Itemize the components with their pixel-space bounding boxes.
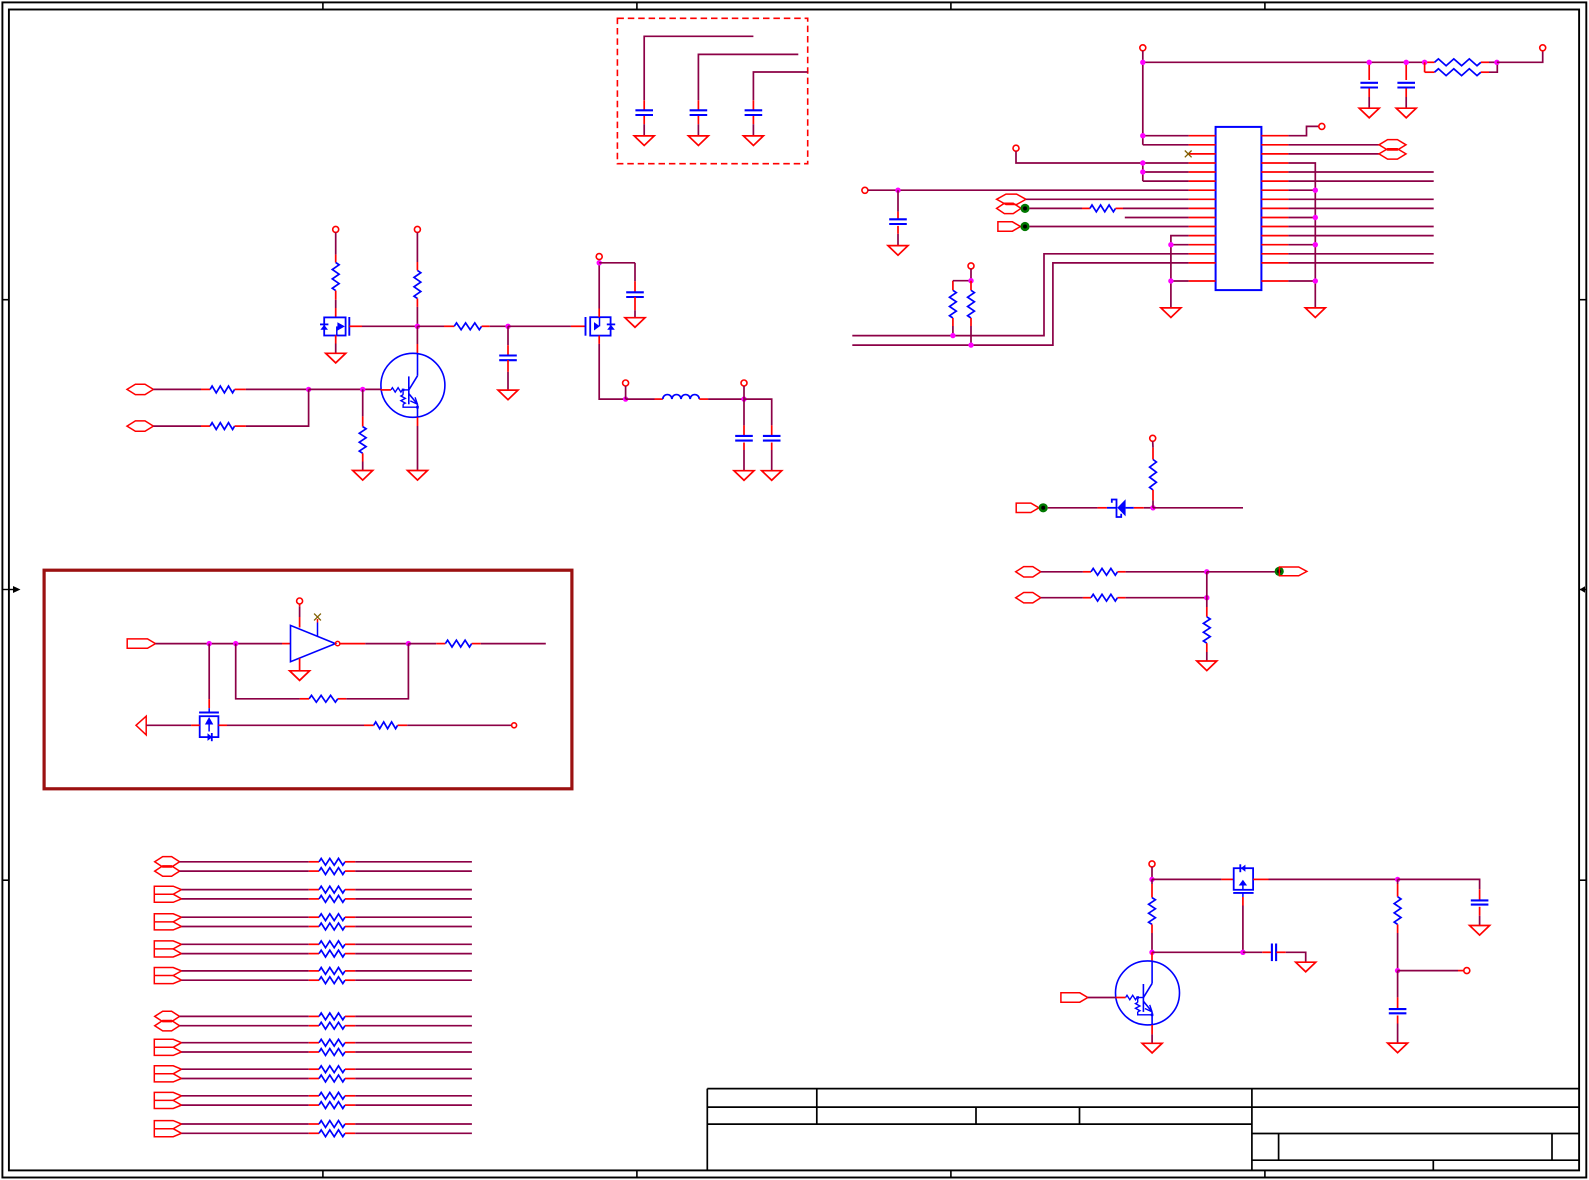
wire [1142,163,1144,181]
wire [1143,171,1189,173]
wire [852,263,1188,345]
port P14 (input flag) [1061,993,1088,1002]
junction [1313,215,1318,220]
wire [599,336,625,400]
node circle [1464,968,1470,974]
connector J10 [154,1121,181,1137]
wire [1288,262,1433,264]
wire [1253,878,1398,880]
wire [1171,244,1189,246]
capacitor C11 [1471,889,1489,925]
connector J3 [154,914,181,930]
power node circle [1540,45,1546,51]
wire [1288,189,1315,191]
wire [599,263,635,282]
capacitor C9 [735,399,753,471]
wire [970,269,972,281]
resistor R10 [153,423,246,430]
power node circle [1149,861,1155,867]
resistor R13 [300,695,347,702]
ground [743,136,763,146]
wire [868,189,1189,191]
wire [1288,163,1315,308]
resistor (array) [182,1102,472,1109]
wire [246,389,309,426]
right edge centre arrow [1579,586,1586,593]
power node circle [596,254,602,260]
wire [508,325,586,327]
junction [1168,242,1173,247]
power node circle [862,187,868,193]
wire [1288,198,1433,200]
port P3 (output) [998,222,1021,231]
wire [1207,571,1275,573]
junction [1313,278,1318,283]
junction [1204,569,1209,574]
ground [1388,1043,1408,1053]
ground [326,353,346,363]
ground [634,136,654,146]
port P7 (bidir) [127,421,153,431]
wire [598,263,600,317]
wire [1288,180,1433,182]
resistor (array) [182,914,472,921]
wire [1288,153,1379,155]
junction [306,387,311,392]
wire [236,644,300,699]
junction [406,641,411,646]
wire [1048,507,1107,509]
resistor R19 [1394,879,1401,970]
wire [1088,997,1116,999]
decoupling group box (dashed) [617,18,807,163]
zener diode D1 [1107,499,1134,517]
resistor R3 [1082,205,1123,212]
ground [1296,962,1316,972]
resistor R16 [1041,568,1126,575]
resistor (array) [182,950,472,957]
power node circle [968,263,974,269]
junction [1313,242,1318,247]
net dot [1020,204,1029,213]
wire [1288,226,1433,228]
wire [490,325,508,327]
buffer output bubble [335,641,339,645]
resistor (array) [180,1013,472,1020]
port P4 (bidir) [1379,140,1406,150]
junction [1367,60,1372,65]
wire [481,643,546,645]
resistor (array) [180,868,472,875]
wire [1016,151,1189,163]
resistor (array) [182,1039,472,1046]
wire [156,643,291,645]
wire [1206,572,1208,598]
junction [950,333,955,338]
wire [1171,280,1189,282]
resistor R12 [408,640,480,647]
mosfet M3 [199,708,219,741]
resistor (array) [182,1130,472,1137]
transistor Q2 [1116,961,1180,1025]
connector J4 [154,941,181,957]
junction [415,324,420,329]
resistor (array) [182,941,472,948]
resistor R18 [1203,598,1210,661]
junction [623,396,628,401]
wire [698,54,798,100]
resistor (array) [182,896,472,903]
junction [207,641,212,646]
wire [1026,198,1189,200]
junction [597,260,602,265]
wire [1288,144,1379,146]
group box (solid) [44,570,572,789]
junction [1395,968,1400,973]
port P10 (output flag) [1016,503,1039,512]
ground [762,471,782,481]
wire [1288,207,1433,209]
ground [1359,108,1379,118]
wire [1030,207,1082,209]
port P5 (bidir) [1379,149,1406,159]
wire [1126,571,1207,573]
junction [741,396,746,401]
connector J5 [154,968,181,984]
junction [1140,60,1145,65]
resistor (array) [180,1022,472,1029]
resistor R4 [950,281,957,336]
connector J7 [154,1039,181,1055]
resistor R5 [968,281,975,345]
wire [1288,280,1315,282]
inductor L1 [663,395,699,400]
junction [360,387,365,392]
wire [1276,952,1305,962]
port P12 (output) [1279,567,1307,576]
power node circle [297,598,303,604]
wire [335,335,337,353]
power node circle [1150,435,1156,441]
ic U1 right pins [1261,136,1288,281]
wire [1143,180,1189,182]
wire [407,724,511,726]
buffer U2 [291,625,336,661]
connector J8 [154,1066,181,1082]
wire [1288,171,1433,173]
wire [1242,897,1244,952]
capacitor C12 [1389,971,1407,1044]
mosfet M2 [586,317,616,336]
wire [753,72,807,100]
connector J6 (bidir pair) [155,1011,180,1031]
port P2 (bidir) [997,203,1021,213]
junction [1149,877,1154,882]
wire [1126,597,1207,599]
net dot [1020,222,1029,231]
left edge centre arrow [2,586,20,593]
wire [1288,235,1433,237]
junction [1140,133,1145,138]
resistor R17 [1041,594,1126,601]
ground [353,471,373,481]
wire [340,643,409,645]
wire [1143,135,1189,137]
wire [625,386,627,399]
wire [1143,144,1189,146]
port P9 (output left) [136,716,146,735]
ground [888,246,908,256]
wire [1497,51,1543,63]
wire [644,36,753,100]
wire [146,724,200,726]
wire [299,658,301,671]
connector J9 [154,1092,181,1108]
wire [416,326,418,353]
wire [1142,62,1144,145]
resistor R9 [153,386,246,393]
resistor (array) [182,968,472,975]
connector J1 (bidir pair) [155,857,180,877]
port P13 (bidir) [1016,593,1041,603]
port P8 (input flag) [127,639,155,648]
junction [1150,505,1155,510]
net dot [1039,503,1048,512]
resistor (array) [182,923,472,930]
ground [1305,308,1325,318]
wire [1151,867,1153,880]
ground [408,471,428,481]
capacitor C1 [635,100,653,136]
resistor R2 [1425,62,1498,75]
power node circle [1319,123,1325,129]
ground [625,318,645,328]
resistor (array) [182,1075,472,1082]
resistor (array) [182,1066,472,1073]
wire [1142,51,1144,63]
wire [208,644,210,709]
wire [1288,126,1318,135]
mosfet M1 [320,317,349,336]
port P1 (bidir) [997,194,1026,204]
junction [968,278,973,283]
ic U1 left pins [1189,136,1216,281]
power node circle [623,380,629,386]
ic U1 [1216,127,1262,290]
wire [349,325,417,327]
resistor (array) [182,886,472,893]
wire [417,417,419,470]
ground [1197,661,1217,671]
junction [1168,278,1173,283]
junction [1404,60,1409,65]
wire [1143,61,1425,63]
capacitor C5 [1397,62,1415,108]
port P6 (bidir) [127,384,153,394]
wire [1398,879,1480,889]
resistor R7 [414,232,421,326]
junction [895,188,900,193]
port P11 (bidir) [1016,567,1041,577]
ground [688,136,708,146]
no-connect X [314,614,321,637]
capacitor C6 [889,190,907,245]
resistor R1 [1425,59,1497,66]
wire [1123,207,1189,209]
resistor (array) [182,1049,472,1056]
resistor R20 [1149,879,1156,952]
wire [346,644,408,699]
junction [505,324,510,329]
ground [1161,308,1181,318]
wire [246,388,309,390]
capacitor C7 [499,326,517,390]
capacitor C8 [626,281,644,317]
wire [1151,1025,1153,1043]
wire [218,724,364,726]
capacitor C2 [690,100,708,136]
capacitor C13 [1272,944,1276,962]
junction [1149,950,1154,955]
resistor R11 [359,389,366,470]
title block [707,1089,1579,1171]
ground [734,471,754,481]
wire [743,386,745,399]
power node circle [333,226,339,232]
power node circle [1140,45,1146,51]
junction [1240,950,1245,955]
ground [290,671,310,681]
junction [1140,160,1145,165]
junction [1494,60,1499,65]
wire [953,280,971,282]
power node circle [741,380,747,386]
junction [1422,60,1427,65]
capacitor C4 [1360,62,1378,108]
resistor R14 [364,722,407,729]
wire [1288,253,1433,255]
mosfet M4 [1233,864,1253,897]
no-connect X pin 3 [1185,151,1192,158]
node circle [512,723,517,728]
capacitor C3 [745,100,763,136]
net dot [1275,567,1284,576]
resistor R6 [332,232,339,317]
power node circle [1013,145,1019,151]
junction [233,641,238,646]
capacitor C10 [763,425,781,470]
wire [299,604,301,628]
wire [1030,226,1189,228]
power node circle [414,226,420,232]
connector J2 [154,886,181,902]
junction [1204,595,1209,600]
wire [1288,217,1315,219]
wire [1125,217,1189,219]
junction [968,342,973,347]
resistor (array) [182,1092,472,1099]
wire [699,398,744,400]
junction [1140,169,1145,174]
resistor (array) [182,1121,472,1128]
ground [1142,1043,1162,1053]
wire [1152,951,1243,953]
wire [1134,507,1153,509]
transistor Q1 [381,353,445,417]
wire [309,388,381,390]
wire [1151,952,1153,961]
wire [1288,244,1315,246]
wire [626,398,663,400]
ground [1470,926,1490,936]
wire [744,399,772,425]
junction [1395,877,1400,882]
resistor (array) [180,858,472,865]
ground [1396,108,1416,118]
wire [1153,507,1243,509]
wire [1152,878,1234,880]
ground [498,390,518,400]
wire [1171,236,1189,308]
junction [1313,188,1318,193]
resistor R8 [417,323,489,330]
resistor R15 [1150,441,1157,508]
wire [1398,970,1464,972]
wire [852,254,1188,336]
wire [1243,951,1272,953]
resistor (array) [182,977,472,984]
